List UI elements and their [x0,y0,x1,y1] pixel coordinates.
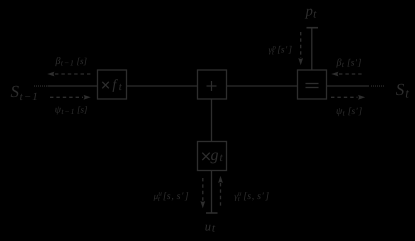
label gamma^p_t[s'] [269,43,293,56]
label psi_{t-1}[s] [55,105,88,117]
svg-text:ψt−1[s]: ψt−1[s] [55,105,88,117]
wire = to S_t [327,85,370,87]
terminal bar p_t [307,27,319,29]
wire + to = [227,85,298,87]
message arrow psi_{t-1}[s] (dashed, rightward) [50,95,91,100]
wire = up to p_t [311,28,313,70]
message arrow beta_{t-1}[s] (dashed, leftward) [47,72,90,77]
message arrow gamma^p_t (dashed, downward) [298,32,303,65]
label psi_t[s'] [336,106,363,118]
message arrow psi_t[s'] (dashed, rightward) [331,95,365,100]
message arrow beta_t[s'] (dashed, leftward) [331,72,364,77]
svg-text:βt[s′]: βt[s′] [336,57,362,69]
label beta_t[s'] [336,57,362,69]
wire ×g_t down to u_t [211,171,213,214]
node S_t [396,80,410,100]
svg-text:γpt[s′]: γpt[s′] [269,43,293,56]
label mu^u_t[s,s'] [153,190,189,203]
factor box ×f_t [98,70,127,99]
label u_t [205,220,216,235]
svg-text:ut: ut [205,220,216,235]
terminal bar u_t [206,212,218,214]
wire dotted continuation to next step [371,85,384,86]
label beta_{t-1}[s] [55,56,88,68]
wire + down to ×g_t [211,99,213,142]
wire ×f_t to + [127,85,198,87]
label p_t [305,4,318,21]
factor box + (sum) [198,70,227,99]
svg-text:ψt[s′]: ψt[s′] [336,106,363,118]
svg-text:μut[s,s′]: μut[s,s′] [153,190,189,203]
factor box ×g_t [198,142,227,171]
node S_{t-1} [11,82,38,103]
message arrow mu^u_t (dashed, downward) [200,178,205,208]
label gamma^u_t[s,s'] [234,190,269,203]
svg-text:βt−1[s]: βt−1[s] [55,56,88,68]
wire dotted continuation from previous step [34,85,47,86]
wire S_{t-1} to ×f_t [48,85,98,87]
factor box = (equality) [298,70,327,99]
message arrow gamma^u_t (dashed, upward) [218,176,223,206]
